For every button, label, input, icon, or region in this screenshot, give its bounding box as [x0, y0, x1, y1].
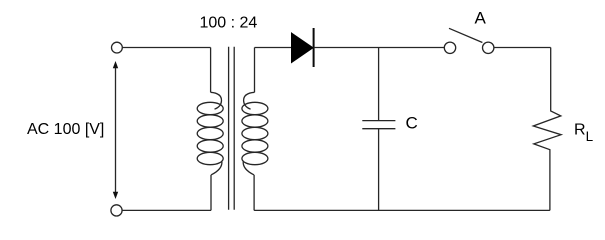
resistor RL (zigzag) and leads: [533, 48, 561, 211]
wire: secondary top to diode anode: [255, 47, 292, 49]
diode D1: [292, 28, 314, 67]
wire: switch to load branch: [494, 47, 551, 49]
switch A: [444, 28, 494, 53]
voltage arrow (double-headed, AC source): [113, 61, 118, 199]
capacitor C: [362, 48, 395, 211]
transformer T1 primary winding: [197, 48, 223, 211]
wire bottom rail: secondary to load: [254, 209, 550, 211]
wire bottom-left: source to transformer primary: [122, 209, 211, 211]
terminal top-left: [112, 42, 123, 53]
svg-text:100 : 24: 100 : 24: [200, 15, 258, 32]
transformer core: [229, 47, 235, 210]
wire top-left: source to transformer primary: [122, 47, 210, 49]
transformer T1 secondary winding: [242, 48, 268, 211]
svg-text:C: C: [406, 114, 418, 133]
svg-text:AC 100 [V]: AC 100 [V]: [27, 121, 104, 138]
wire: diode cathode to node and switch: [314, 47, 445, 49]
svg-text:RL: RL: [574, 122, 594, 144]
svg-text:A: A: [475, 9, 487, 28]
terminal bottom-left: [111, 205, 122, 216]
